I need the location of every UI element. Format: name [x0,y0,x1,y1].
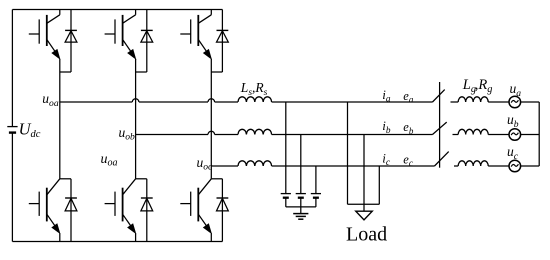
wire - grid neutral rail [538,102,540,166]
wire - upper emitter to phase node a [59,59,61,102]
wire - upper diode branch phase-a [70,10,72,73]
dc source Udc - positive plate (long bar) [7,126,17,128]
inductor Lg phase a [458,97,488,102]
igbt lower phase-c [180,179,211,242]
wire - phase b after Ls [272,134,433,136]
wire - switch right stub phase b [453,134,459,136]
ac source ua [509,96,521,108]
igbt upper phase-c [180,10,211,59]
wire - capacitor drop phase-c [315,166,317,194]
wire - load tap phase-c [378,166,380,204]
wire - Lg to grid source phase-c [488,165,509,167]
inductor Ls phase a [238,97,272,102]
inductor Lg phase b [458,129,488,134]
svg-text:Load: Load [346,223,387,245]
wire - upper diode-emitter connector phase-c [211,71,222,73]
wire - source uc to neutral rail [521,165,540,167]
switch blade phase c [435,152,449,166]
igbt lower phase-a [29,179,60,242]
wire - capacitor Cc to common bar [315,198,317,207]
wire - upper diode branch phase-c [221,10,223,73]
diode lower phase-b (anti-parallel) [141,198,153,211]
dc source Udc - left rail upper segment [11,10,13,127]
wire - negative DC bus (bottom) [12,241,222,243]
wire - capacitor drop phase-b [300,135,302,194]
switch blade phase a [433,90,445,102]
diode upper phase-a (anti-parallel) [65,30,77,42]
wire - load common bar [348,203,380,205]
capacitor Ca top plate [281,193,291,195]
wire - phase node to lower collector phase-a [59,102,61,179]
wire - lower diode branch phase-b [146,179,148,242]
wire - capacitor drop phase-a [285,102,287,194]
wire - capacitor common bar [286,206,316,208]
wire - phase a output line (node uoa) [60,101,133,103]
wire - upper diode branch phase-b [146,10,148,73]
wire - phase a after Ls [272,101,433,103]
wire - upper emitter to phase node b [135,59,137,135]
wire - capacitor Ca to common bar [285,198,287,207]
wire - phase c output line (node uoc) [211,165,238,167]
wire - source ua to neutral rail [521,101,540,103]
wire - switch right stub phase c [454,165,458,167]
wire - switch right stub phase a [451,101,459,103]
capacitor Cb bottom plate [298,197,304,199]
wire - load tap phase-a [347,102,349,204]
wire - Lg to grid source phase-a [488,101,509,103]
wire - load arrow stub [363,204,365,211]
load arrow (open triangle) [356,211,372,220]
ac source uc [509,160,521,172]
wire - lower collector-diode connector phase-a [60,178,71,180]
capacitor Ca bottom plate [283,197,289,199]
wire - Lg to grid source phase-b [488,134,509,136]
wire - load tap phase-b [363,135,365,205]
wire - source ub to neutral rail [521,134,540,136]
wire - upper diode-emitter connector phase-a [60,71,71,73]
ground symbol [293,213,308,215]
wire - lower diode branch phase-a [70,179,72,242]
capacitor Cc bottom plate [313,197,319,199]
igbt upper phase-b [105,10,136,59]
wire - phase node to lower collector phase-c [210,166,212,179]
diode lower phase-c (anti-parallel) [217,198,229,211]
inductor Ls phase b [238,129,272,134]
diode upper phase-b (anti-parallel) [141,30,153,42]
capacitor Cb top plate [296,193,306,195]
capacitor Cc top plate [311,193,321,195]
inductor Ls phase c [238,161,272,166]
wire - phase b output line (node uob) [136,134,208,136]
wire - positive DC bus (top) [12,9,222,11]
ac source ub [509,129,521,141]
wire - upper emitter to phase node c [210,59,212,166]
wire - phase c after Ls [272,165,435,167]
wire - lower diode branch phase-c [221,179,223,242]
switch blade phase b [433,122,447,134]
inductor Lg phase c [458,161,488,166]
wire - phase node to lower collector phase-b [135,135,137,179]
dc source Udc - negative plate (short bar) [9,131,16,133]
wire - lower collector-diode connector phase-c [211,178,222,180]
switch gang link (vertical) [439,82,441,168]
wire - ground stub [300,207,302,214]
diode lower phase-a (anti-parallel) [65,198,77,211]
wire - upper diode-emitter connector phase-b [136,71,147,73]
igbt upper phase-a [29,10,60,59]
wire - capacitor Cb to common bar [300,198,302,207]
igbt lower phase-b [105,179,136,242]
dc source Udc - left rail lower segment [11,133,13,242]
diode upper phase-c (anti-parallel) [217,30,229,42]
wire - lower collector-diode connector phase-b [136,178,147,180]
